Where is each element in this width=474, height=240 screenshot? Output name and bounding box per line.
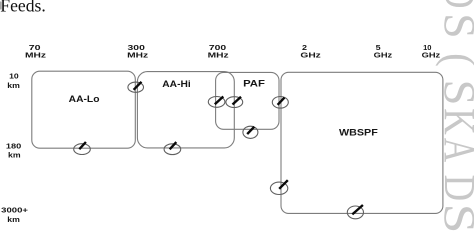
svg-text:10: 10	[9, 71, 19, 80]
cut glyph at left edge	[0, 2, 2, 10]
svg-text:A: A	[435, 138, 474, 163]
feed symbol C (AA-Hi right edge)	[226, 97, 243, 108]
svg-text:AA-Hi: AA-Hi	[162, 79, 190, 90]
svg-text:AA-Lo: AA-Lo	[69, 94, 100, 105]
box WBSPF	[281, 72, 443, 213]
feed symbol A (AA-Lo / AA-Hi top edge)	[128, 82, 144, 92]
svg-text:D: D	[435, 175, 474, 202]
svg-text:MHz: MHz	[208, 51, 229, 60]
box PAF	[216, 72, 279, 129]
svg-text:km: km	[7, 215, 20, 224]
svg-text:MHz: MHz	[127, 51, 148, 60]
svg-text:WBSPF: WBSPF	[339, 128, 378, 139]
svg-text:GHz: GHz	[300, 51, 321, 60]
svg-text:GHz: GHz	[422, 51, 441, 60]
feed symbol G (AA-Hi bottom edge)	[164, 142, 181, 155]
svg-text:km: km	[7, 81, 20, 90]
feed symbol F (AA-Lo bottom edge)	[74, 142, 91, 155]
svg-text:S: S	[435, 13, 474, 39]
svg-text:180: 180	[6, 141, 21, 150]
feed symbol I (WBSPF bottom edge)	[347, 205, 363, 219]
svg-text:km: km	[8, 151, 21, 160]
svg-text:S: S	[435, 80, 474, 106]
svg-text:Feeds.: Feeds.	[0, 0, 45, 15]
svg-text:S: S	[435, 204, 474, 233]
svg-text:MHz: MHz	[25, 51, 46, 60]
svg-text:D: D	[435, 0, 474, 9]
svg-text:PAF: PAF	[243, 78, 265, 89]
feed symbol H (WBSPF left edge lower)	[270, 180, 287, 194]
feed symbol E (PAF bottom edge)	[243, 126, 258, 138]
feed symbol B (PAF left edge)	[208, 97, 225, 108]
feed symbol D (PAF right / WBSPF left edge)	[272, 97, 288, 109]
box AA-Lo	[32, 71, 136, 148]
box AA-Hi	[137, 72, 234, 148]
svg-text:GHz: GHz	[374, 51, 393, 60]
svg-text:K: K	[435, 108, 474, 135]
svg-text:(: (	[435, 53, 474, 67]
svg-text:3000+: 3000+	[1, 206, 29, 215]
